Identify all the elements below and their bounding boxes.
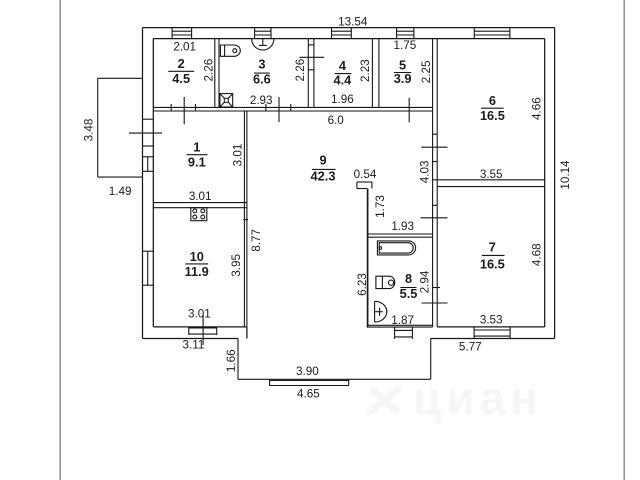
svg-text:6: 6 (489, 93, 496, 108)
window above room 3 (255, 28, 271, 39)
room 2 label (168, 56, 194, 86)
svg-text:1: 1 (193, 140, 200, 155)
short tick room 7 wall (433, 287, 440, 289)
svg-text:3: 3 (258, 57, 265, 72)
room 3 label (253, 57, 271, 87)
svg-text:3.95: 3.95 (230, 254, 243, 277)
wall room 9 to corridor and room 8 (367, 189, 369, 328)
door tick rooms 9-3 (278, 97, 280, 122)
svg-text:4.66: 4.66 (531, 97, 544, 120)
svg-text:2.26: 2.26 (203, 59, 216, 82)
svg-text:3.53: 3.53 (480, 314, 503, 327)
room 8 label (400, 271, 418, 301)
svg-text:10.14: 10.14 (559, 160, 572, 190)
svg-text:9: 9 (319, 152, 326, 167)
stove room 10 (191, 208, 207, 221)
room 8 top wall (367, 234, 433, 237)
svg-text:2.23: 2.23 (359, 59, 372, 82)
toilet room 8 (375, 301, 387, 322)
room 9 label (311, 152, 336, 183)
svg-text:9.1: 9.1 (188, 154, 206, 169)
sink room 8 (376, 276, 395, 288)
room 6 label (480, 93, 505, 123)
svg-text:циан: циан (413, 372, 543, 424)
svg-text:4.4: 4.4 (334, 73, 353, 88)
svg-text:42.3: 42.3 (311, 168, 336, 183)
window above room 4 (332, 28, 352, 39)
svg-text:5.5: 5.5 (400, 286, 418, 301)
svg-text:8.77: 8.77 (250, 229, 263, 252)
svg-text:1.49: 1.49 (109, 185, 132, 198)
svg-text:10: 10 (190, 249, 204, 264)
boiler room 3 (252, 39, 274, 50)
watermark cian (368, 372, 543, 424)
porch outline (238, 339, 431, 380)
room 5 label (394, 58, 412, 87)
door tick rooms 9-5 (408, 98, 410, 122)
bathtub room 8 (377, 241, 415, 255)
window above room 6 (474, 28, 510, 39)
svg-text:3.90: 3.90 (296, 365, 319, 378)
partition rooms 5-6 wall down to bottom (433, 39, 438, 327)
svg-text:16.5: 16.5 (480, 257, 505, 272)
svg-text:2: 2 (178, 56, 185, 71)
window below room 7 (474, 327, 510, 339)
jamb ticks rooms 1-2 door (171, 104, 195, 111)
porch step (270, 379, 349, 386)
svg-text:6.0: 6.0 (328, 114, 345, 127)
svg-text:2.93: 2.93 (250, 94, 273, 107)
partition rooms 3-4 (299, 39, 324, 108)
vent box room 3 (220, 94, 233, 107)
svg-text:3.01: 3.01 (189, 190, 212, 203)
page border line left (59, 0, 61, 480)
svg-text:7: 7 (489, 240, 496, 255)
svg-text:13.54: 13.54 (338, 16, 368, 29)
svg-text:0.54: 0.54 (354, 168, 377, 181)
svg-text:3.01: 3.01 (231, 144, 244, 167)
svg-text:3.11: 3.11 (183, 339, 205, 352)
page border line right (623, 0, 625, 480)
svg-text:4.03: 4.03 (419, 161, 432, 184)
svg-text:4: 4 (339, 58, 347, 73)
svg-text:3.55: 3.55 (480, 168, 503, 181)
outer wall bottom right segment (431, 327, 555, 339)
svg-text:1.75: 1.75 (394, 39, 417, 52)
svg-text:4.5: 4.5 (172, 71, 190, 86)
svg-text:2.25: 2.25 (420, 60, 433, 83)
room 7 label (480, 240, 505, 272)
svg-text:2.26: 2.26 (294, 59, 307, 82)
door tick room 7 upper (421, 217, 448, 219)
room 4 label (334, 58, 353, 87)
svg-text:6.23: 6.23 (356, 273, 369, 296)
window room 10 left wall (143, 251, 154, 285)
left annex bump (98, 78, 143, 177)
partition rooms 1-10 (153, 203, 247, 208)
outer wall left (143, 28, 154, 339)
left wall rungs (143, 119, 154, 146)
svg-text:4.68: 4.68 (530, 243, 543, 266)
svg-text:1.73: 1.73 (374, 195, 387, 218)
door tick rooms 1-2 (183, 97, 185, 124)
svg-text:4.65: 4.65 (297, 388, 320, 401)
svg-text:1.93: 1.93 (391, 220, 414, 233)
svg-text:1.87: 1.87 (391, 314, 414, 327)
svg-text:3.48: 3.48 (83, 119, 96, 142)
partition rooms 1-9 and 10-9 (243, 111, 248, 327)
outer wall bottom left segment (143, 327, 247, 339)
sink room 3 (220, 45, 240, 56)
window room 1 left wall (143, 157, 154, 172)
outer wall top (143, 28, 555, 39)
svg-text:1.96: 1.96 (331, 93, 354, 106)
svg-text:6.6: 6.6 (253, 71, 271, 86)
room 10 label (185, 249, 209, 279)
room 1 label (187, 140, 208, 170)
outer wall right (545, 28, 555, 339)
partition band top of rooms 1 and 9 (153, 107, 432, 111)
door tick room 10 bottom (202, 315, 204, 346)
window above room 2 (172, 28, 192, 39)
jamb ticks rooms 9-3 door (266, 104, 291, 111)
door box below room 8 (395, 327, 413, 339)
door tick room 6 (421, 146, 447, 148)
svg-text:3.01: 3.01 (188, 308, 211, 321)
dimension tick 3.48 (129, 132, 162, 134)
svg-text:5.77: 5.77 (459, 340, 482, 353)
door box room 10 bottom wall (189, 327, 217, 335)
svg-text:3.9: 3.9 (394, 71, 412, 86)
partition rooms 6-7 (433, 180, 545, 187)
pilaster stub 0.54 (357, 182, 372, 189)
svg-text:2.94: 2.94 (419, 270, 432, 293)
partition rooms 4-5 (372, 39, 379, 108)
window above room 5 (397, 28, 414, 39)
svg-text:1.66: 1.66 (225, 349, 238, 372)
partition rooms 2-3 (215, 39, 219, 108)
door tick room 7 lower (422, 302, 448, 304)
room 8 bottom wall (367, 325, 433, 327)
svg-text:2.01: 2.01 (173, 40, 196, 53)
svg-text:11.9: 11.9 (185, 264, 209, 279)
svg-text:16.5: 16.5 (480, 108, 505, 123)
svg-text:8: 8 (405, 271, 412, 286)
